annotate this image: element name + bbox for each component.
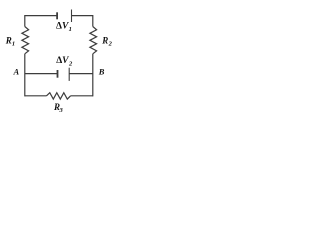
svg-text:ΔV: ΔV [56,21,69,31]
svg-text:ΔV: ΔV [56,56,69,66]
wire middle-right horizontal (battery V2 to node B) [69,73,93,75]
wire right vertical upper [92,15,94,27]
svg-text:R: R [5,35,12,45]
svg-text:1: 1 [69,26,72,33]
wire middle-left horizontal (node A to battery V2) [25,73,57,75]
wire right vertical lower [92,54,94,97]
wire bottom-left horizontal [25,95,47,97]
svg-text:3: 3 [59,107,64,114]
svg-text:2: 2 [108,41,113,48]
svg-text:1: 1 [12,41,15,48]
svg-text:R: R [101,35,108,45]
wire top-right horizontal [72,15,93,17]
wire top-left horizontal [25,15,57,17]
wire left vertical upper [24,15,26,27]
svg-text:A: A [13,67,20,77]
battery V1 negative plate (short thick) [56,12,58,19]
wire left vertical lower [24,54,26,97]
wire bottom-right horizontal [71,95,93,97]
resistor R1 zigzag [22,27,29,54]
battery V2 positive plate (long thin) [68,68,70,81]
svg-text:2: 2 [68,60,73,67]
resistor R3 zigzag [47,93,71,99]
battery V1 positive plate (long thin) [71,10,73,23]
resistor R2 zigzag [90,27,97,54]
svg-text:B: B [98,67,105,77]
battery V2 negative plate (short thick) [57,70,59,78]
